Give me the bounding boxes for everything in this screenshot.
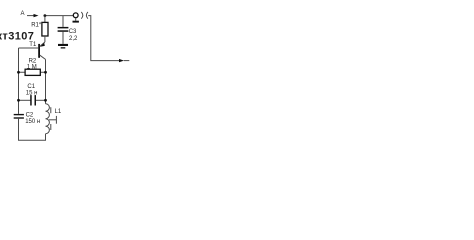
svg-text:Т1: Т1: [29, 42, 37, 48]
svg-text:A: A: [21, 11, 25, 17]
connector XS1 (circle terminal on rail): [73, 13, 79, 23]
capacitor C2 150н: [14, 112, 41, 125]
wire from battery down to DA1.1 input: [88, 16, 119, 61]
wire top rail left: [45, 15, 73, 17]
svg-text:C1: C1: [27, 84, 35, 90]
capacitor C1 15н: [17, 84, 47, 105]
wire right bus (collector): [45, 59, 47, 103]
resistor R2 1М: [17, 59, 47, 76]
ground (under C3): [58, 44, 68, 49]
battery GB1: [81, 12, 88, 19]
wire left bus lower + bottom of tank: [19, 119, 46, 141]
node A: [21, 11, 39, 17]
capacitor C3 2,2 (left, with ground): [58, 16, 78, 44]
wire left bus: [18, 48, 20, 114]
svg-text:кт3107: кт3107: [0, 31, 34, 43]
arrow on input wire: [119, 59, 124, 62]
svg-text:R1*: R1*: [31, 22, 42, 28]
svg-text:C2: C2: [26, 112, 34, 118]
svg-text:L1: L1: [55, 109, 62, 115]
svg-text:2,2: 2,2: [69, 36, 78, 42]
svg-text:C3: C3: [69, 29, 77, 35]
transistor T1 (кт3107): [19, 42, 46, 60]
resistor R1: [31, 16, 48, 42]
inductor L1 (search coil): [46, 104, 62, 134]
svg-text:150 н: 150 н: [25, 119, 40, 125]
node R1 top junction: [44, 14, 47, 17]
